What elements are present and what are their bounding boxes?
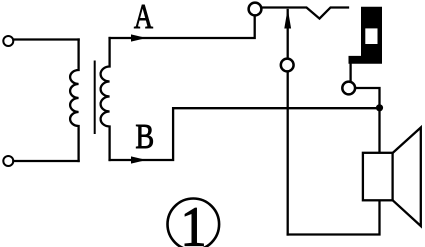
svg-text:1: 1 xyxy=(181,196,207,247)
wire: J1 to transformer primary top xyxy=(13,38,78,40)
current arrow on wire A xyxy=(131,34,147,41)
wire: plug branch vertical xyxy=(287,10,289,235)
jack terminal J5 (earpiece lead) xyxy=(342,82,355,95)
transformer T1 secondary winding xyxy=(101,38,110,160)
plug arrow head (points up to top wire) xyxy=(284,9,291,29)
transformer T1 core xyxy=(94,62,96,134)
terminal J1 (top-left input post) xyxy=(3,36,13,46)
earpiece BE white window xyxy=(365,28,377,44)
wire: top line with hook notch xyxy=(262,8,348,19)
svg-text:B: B xyxy=(135,117,154,156)
earpiece BE (black body) xyxy=(349,7,382,63)
svg-text:A: A xyxy=(134,0,154,36)
figure number circle xyxy=(168,199,220,247)
jack terminal J4 (middle of plug branch) xyxy=(281,59,294,72)
junction dot xyxy=(376,104,383,111)
jack terminal J3 (top) xyxy=(249,3,262,16)
wire: speaker bottom loop xyxy=(288,200,380,234)
wire: earpiece to J5 xyxy=(349,63,351,82)
wire: junction up and left to jack J5 xyxy=(355,88,379,153)
wire: transformer primary bottom to J2 xyxy=(13,160,78,162)
current arrow on wire B xyxy=(131,156,147,163)
terminal J2 (bottom-left input post) xyxy=(3,156,13,166)
wire B: secondary bottom across to junction xyxy=(110,108,380,160)
transformer T1 primary winding xyxy=(70,40,79,162)
wire A: secondary top to jack J3 xyxy=(110,16,255,38)
speaker LS cone xyxy=(393,128,421,227)
speaker LS driver rectangle xyxy=(363,153,393,201)
